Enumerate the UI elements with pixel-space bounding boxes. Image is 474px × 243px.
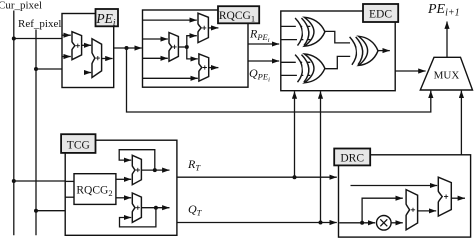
svg-text:PEi: PEi (95, 11, 116, 29)
svg-text:Ref_pixel: Ref_pixel (18, 18, 61, 30)
wire DRC top path to DRC-A2 (351, 185, 438, 187)
wire RQCG1 inner input 4 (143, 77, 198, 79)
xor gate X2 (295, 55, 302, 83)
multiplier M1 (377, 216, 392, 231)
wire X3 output (378, 50, 390, 52)
adder TCG-A2 bottom (132, 193, 141, 222)
wire PE inner input 1 (62, 34, 71, 36)
wire PE output to RQCG1 (114, 47, 142, 49)
svg-text:MUX: MUX (434, 69, 460, 81)
wire X1 out to X3 (325, 31, 350, 43)
xor gate X1 (295, 18, 302, 46)
wire RQCG1-A2 output (208, 27, 218, 29)
DRC box (339, 155, 471, 237)
junction PE output node (125, 46, 129, 50)
wire PE-A2 output (102, 58, 113, 60)
RQCG1 box (143, 10, 249, 87)
adder DRC-A2 right (438, 177, 451, 216)
junction TCG-A1 out node (153, 168, 157, 172)
net Cur_pixel vertical bus (13, 11, 15, 236)
wire RQCG2 out1 to TCG-A1 (116, 178, 131, 180)
svg-text:TCG: TCG (67, 139, 90, 151)
junction RQCG1 node (185, 45, 189, 49)
wire Cur_pixel to PE input (14, 38, 62, 40)
adder TCG-A1 top (132, 155, 141, 184)
wire EDC xor2 input b (281, 74, 311, 76)
wire PE output bypass to MUX (127, 48, 431, 112)
wire PE-A1 out to PE-A2 (82, 44, 92, 46)
wire RQCG1-A1 out node (178, 46, 186, 48)
wire TCG-A2 feedback loop (120, 208, 156, 227)
wire DRC to MUX (460, 91, 462, 155)
adder PE-A2 (92, 39, 102, 78)
wire RPEi RQCG1 to EDC (248, 43, 279, 45)
junction QT node (319, 221, 323, 225)
adder RQCG1-A1 middle (169, 33, 178, 62)
adder RQCG1-A2 top (198, 13, 208, 42)
svg-text:Cur_pixel: Cur_pixel (0, 0, 42, 12)
xor gate X3 (350, 37, 357, 65)
svg-text:EDC: EDC (369, 9, 392, 21)
wire TCG-A1 output (141, 169, 169, 171)
svg-text:RQCG2: RQCG2 (76, 185, 112, 199)
wire QT TCG to DRC (177, 222, 337, 224)
wire QPEi RQCG1 to EDC (248, 60, 279, 62)
junction Ref/PE (34, 67, 38, 71)
wire EDC xor1 input a (281, 25, 311, 27)
junction TCG-A2 out node (154, 206, 158, 210)
junction Cur/PE (12, 37, 16, 41)
junction DRC branch node (360, 221, 364, 225)
wire RQCG1-A3 output (209, 67, 219, 69)
wire TCG inner input 1 (65, 180, 74, 182)
junction Cur/TCG (12, 179, 16, 183)
wire node to RQCG1-A3 (187, 47, 198, 59)
wire TCG-A1 feedback loop (119, 150, 155, 170)
svg-text:RQCG1: RQCG1 (219, 10, 255, 24)
EDC label box (363, 4, 398, 22)
wire RT up to EDC (294, 91, 296, 177)
wire Cur_pixel to TCG input (14, 180, 65, 182)
junction Ref/TCG (34, 209, 38, 213)
wire TCG inner input 2 (65, 196, 74, 198)
wire Ref_pixel to TCG input (36, 210, 65, 212)
multiplexer MUX (420, 57, 472, 90)
net Ref_pixel vertical bus (35, 30, 37, 236)
RQCG2 box (74, 174, 116, 205)
PE_i label box (96, 9, 119, 26)
wire RQCG1 inner input 1 (143, 19, 197, 21)
adder RQCG1-A3 bottom (199, 54, 209, 81)
wire RT TCG to DRC (177, 176, 337, 178)
wire DRC bottom input to multiplier (339, 222, 375, 224)
RQCG1 label box (218, 6, 259, 23)
wire multiplier output to DRC-A1 (391, 222, 403, 224)
wire node to RQCG1-A2 (187, 36, 197, 47)
EDC box (281, 11, 395, 91)
wire DRC-A2 output (451, 197, 465, 199)
wire EDC xor2 input a (281, 61, 311, 63)
wire MUX output PEi+1 (446, 22, 448, 58)
processing element PE_i box (62, 14, 114, 88)
TCG box (65, 140, 177, 235)
wire DRC-A1 output to DRC-A2 (418, 210, 437, 212)
adder PE-A1 (72, 32, 82, 60)
wire TCG-A2 output (141, 207, 169, 209)
wire PE inner input 2 (62, 56, 71, 58)
wire RQCG1 inner input 3 (143, 57, 168, 59)
wire RQCG2 out2 to TCG-A2 (116, 197, 131, 199)
wire EDC output to MUX (395, 70, 425, 72)
wire EDC xor1 input b (281, 39, 311, 41)
wire DRC branch to DRC-A1 (362, 198, 403, 223)
TCG label box (61, 134, 95, 153)
wire Ref_pixel to PE input (36, 68, 62, 70)
DRC label box (334, 149, 370, 166)
junction RT node (293, 175, 297, 179)
wire QT up to EDC (320, 91, 322, 222)
wire PE-A2 bottom input stub (85, 72, 91, 74)
adder DRC-A1 left (406, 190, 418, 230)
svg-text:DRC: DRC (340, 153, 364, 165)
wire RQCG1 inner input 2 (143, 38, 168, 40)
wire X2 out to X3 (325, 56, 350, 68)
